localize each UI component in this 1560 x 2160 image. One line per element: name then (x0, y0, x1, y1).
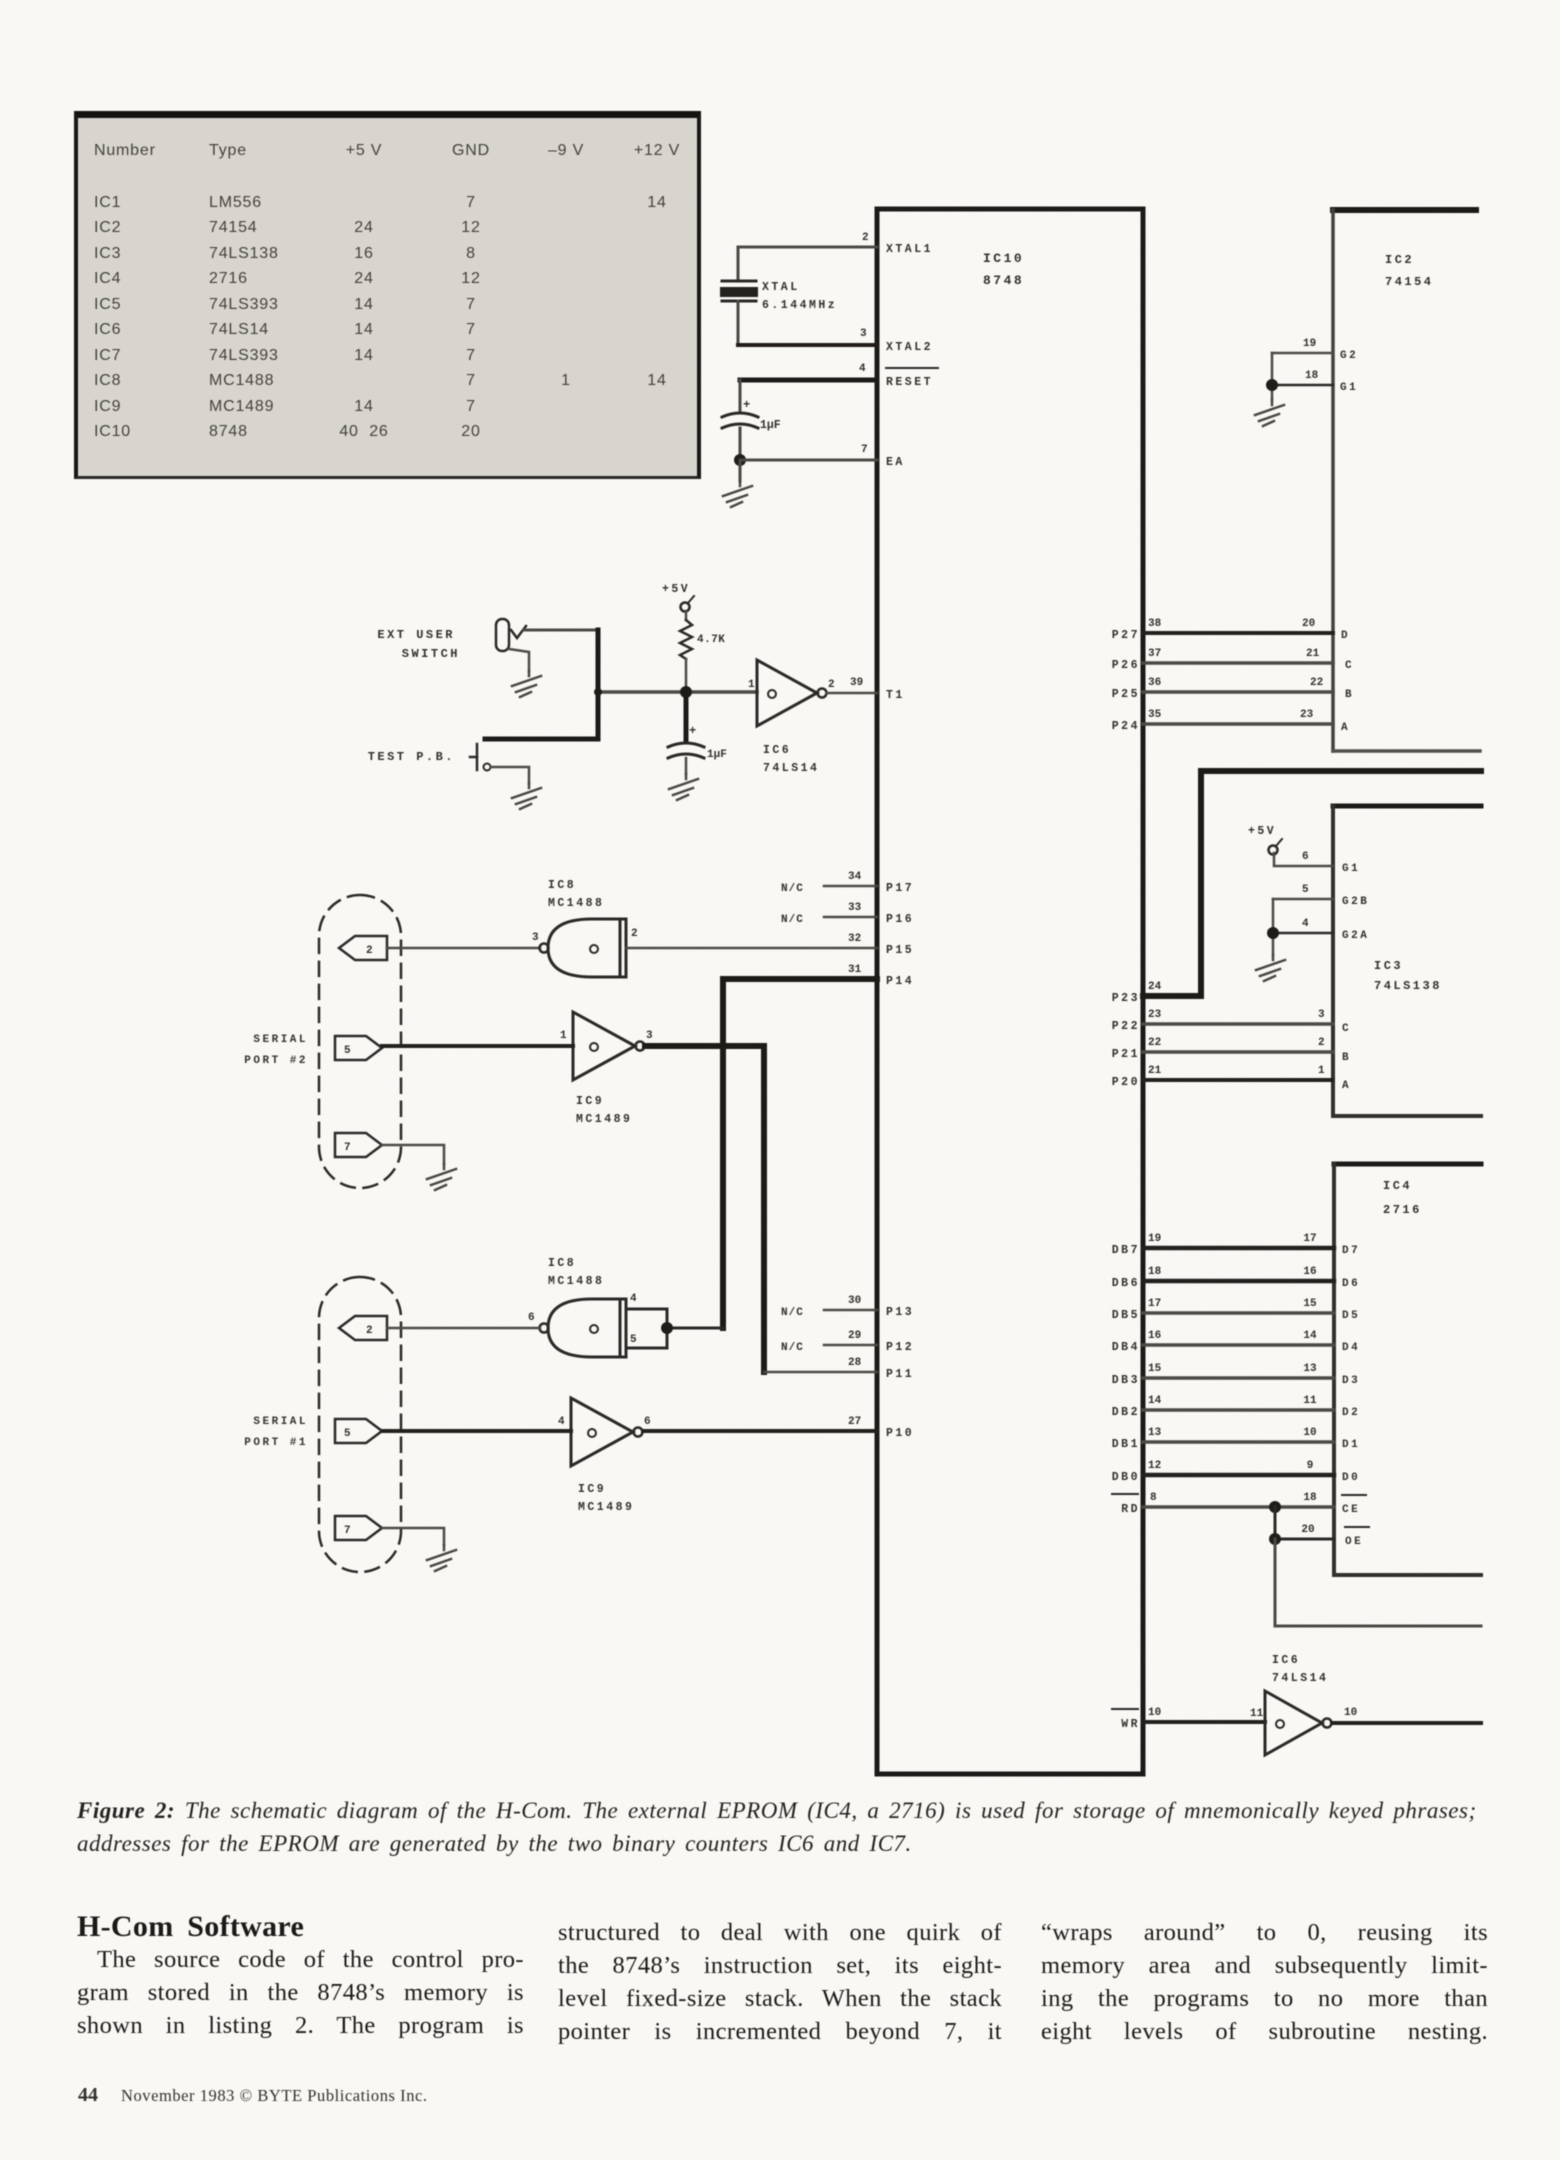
svg-text:+: + (743, 398, 750, 412)
svg-text:3: 3 (532, 932, 539, 944)
svg-text:7: 7 (861, 444, 868, 456)
wire SP2 pin5 to receiver (382, 1044, 573, 1048)
node switch junction T1 (594, 688, 602, 696)
svg-text:P11: P11 (886, 1368, 914, 1381)
svg-text:RD: RD (1121, 1503, 1140, 1516)
svg-text:28: 28 (848, 1357, 862, 1369)
wire node to inverter (598, 690, 757, 694)
svg-text:G2B: G2B (1342, 896, 1369, 908)
svg-text:MC1488: MC1488 (548, 1275, 604, 1288)
wire DB1 pin13 to 2716 D1 pin10 (1112, 1427, 1360, 1451)
svg-text:23: 23 (1300, 709, 1314, 721)
svg-text:3: 3 (860, 328, 867, 340)
wire XTAL2 pin3 (738, 328, 933, 354)
svg-text:19: 19 (1303, 338, 1316, 350)
svg-text:10: 10 (1344, 1707, 1357, 1719)
svg-text:G1: G1 (1342, 863, 1360, 875)
svg-text:SWITCH: SWITCH (402, 647, 460, 661)
svg-text:15: 15 (1303, 1298, 1317, 1310)
wire P24 pin35 to IC2 A pin23 (1112, 709, 1350, 734)
wire junction to cap (684, 692, 689, 742)
resistor 4.7K (680, 620, 725, 659)
crystal XTAL 6.144MHz (720, 281, 837, 312)
capacitor 1uF reset (722, 398, 781, 432)
ground IC3 enables (1256, 955, 1285, 981)
svg-text:XTAL: XTAL (762, 281, 800, 294)
wire XTAL1 pin2 (738, 232, 933, 256)
svg-text:6: 6 (644, 1416, 651, 1428)
svg-text:9: 9 (1307, 1460, 1314, 1472)
svg-text:P14: P14 (886, 975, 914, 988)
svg-text:XTAL1: XTAL1 (886, 243, 933, 256)
svg-text:22: 22 (1148, 1037, 1161, 1049)
svg-text:IC6: IC6 (763, 744, 791, 757)
wire N/C P17 pin34 (781, 871, 914, 895)
svg-text:20: 20 (1301, 1524, 1314, 1536)
svg-text:36: 36 (1148, 677, 1161, 689)
wire IC2 G2 pin19 (1272, 338, 1358, 362)
svg-text:24: 24 (1148, 981, 1162, 993)
wire EA pin7 (740, 444, 905, 469)
svg-text:3: 3 (1318, 1009, 1325, 1021)
connector pin 7 SP2 (335, 1133, 382, 1157)
wire IC2 G1 pin18 (1272, 370, 1358, 394)
body column 2 (558, 1916, 1002, 2048)
wire RD to OE (1275, 1507, 1369, 1548)
svg-text:20: 20 (1302, 618, 1315, 630)
svg-text:10: 10 (1303, 1427, 1316, 1439)
svg-text:14: 14 (1148, 1395, 1162, 1407)
svg-text:8748: 8748 (983, 273, 1024, 288)
svg-text:35: 35 (1148, 709, 1162, 721)
svg-text:RESET: RESET (886, 376, 933, 389)
svg-text:D0: D0 (1342, 1472, 1360, 1484)
wire MC1488 SP1 input loop (626, 1309, 723, 1348)
svg-text:+: + (689, 724, 696, 738)
svg-text:7: 7 (344, 1525, 351, 1537)
svg-text:5: 5 (1302, 884, 1309, 896)
svg-text:30: 30 (848, 1295, 861, 1307)
wire inverter to T1 pin39 (827, 677, 905, 702)
gate IC8 MC1488 driver SP2 (532, 879, 638, 977)
svg-text:8: 8 (1150, 1492, 1157, 1504)
svg-text:IC3: IC3 (1374, 959, 1403, 973)
svg-text:15: 15 (1148, 1363, 1162, 1375)
parts table (74, 111, 701, 479)
svg-text:74154: 74154 (1385, 275, 1434, 289)
svg-text:13: 13 (1148, 1427, 1162, 1439)
power +5V IC3 (1248, 825, 1282, 855)
svg-text:MC1489: MC1489 (576, 1113, 632, 1126)
wire RD pin8 to 2716 CE pin18 (1112, 1492, 1366, 1516)
pushbutton TEST P.B. (470, 744, 491, 771)
svg-text:WR: WR (1121, 1718, 1140, 1731)
svg-text:C: C (1345, 660, 1354, 672)
svg-text:P20: P20 (1112, 1076, 1140, 1089)
wire DB3 pin15 to 2716 D3 pin13 (1112, 1363, 1360, 1387)
svg-text:D6: D6 (1342, 1278, 1360, 1290)
svg-text:22: 22 (1310, 677, 1323, 689)
wire P23 pin24 bus (1112, 771, 1481, 1005)
connector pin 2 SP2 (339, 936, 387, 960)
svg-text:38: 38 (1148, 618, 1162, 630)
svg-text:P25: P25 (1112, 688, 1140, 701)
svg-text:N/C: N/C (781, 1307, 804, 1319)
wire P11 pin28 (764, 1357, 914, 1381)
wire P21 pin22 to IC3 B pin2 (1112, 1037, 1351, 1064)
wire IC3 enables tie (1272, 899, 1275, 955)
svg-text:P24: P24 (1112, 720, 1140, 733)
node EA junction (734, 454, 746, 466)
svg-text:4: 4 (859, 363, 866, 375)
wire driver SP1 to pin2 (387, 1327, 540, 1330)
ground SP1 (427, 1545, 456, 1571)
svg-text:2: 2 (862, 232, 869, 244)
node P14 to driver junction (661, 1322, 673, 1334)
svg-text:DB3: DB3 (1112, 1374, 1140, 1387)
svg-text:2: 2 (1318, 1037, 1325, 1049)
jack EXT USER SWITCH (496, 619, 526, 651)
svg-text:18: 18 (1305, 370, 1319, 382)
svg-text:TEST P.B.: TEST P.B. (368, 750, 455, 764)
svg-text:1: 1 (560, 1030, 567, 1042)
svg-text:MC1488: MC1488 (548, 897, 604, 910)
svg-text:P12: P12 (886, 1341, 914, 1354)
svg-text:+5V: +5V (662, 583, 690, 596)
wire DB6 pin18 to 2716 D6 pin16 (1112, 1266, 1360, 1290)
svg-text:74LS14: 74LS14 (1272, 1672, 1328, 1685)
wire WR pin10 to inverter (1112, 1707, 1265, 1731)
wire DB7 pin19 to 2716 D7 pin17 (1112, 1233, 1360, 1257)
svg-text:DB5: DB5 (1112, 1309, 1140, 1322)
gate IC8 MC1488 driver SP1 (528, 1257, 637, 1357)
wire SP1 pin5 to receiver (382, 1429, 571, 1433)
svg-text:A: A (1342, 1080, 1351, 1092)
wire IC3 G2B pin5 (1273, 884, 1369, 908)
svg-text:7: 7 (344, 1142, 351, 1154)
wire SP2 pin7 to ground (382, 1145, 444, 1164)
decoder IC3 74LS138 box (1333, 806, 1481, 1116)
svg-text:D4: D4 (1342, 1342, 1360, 1354)
svg-text:MC1489: MC1489 (578, 1501, 634, 1514)
node T1 RC junction (680, 686, 692, 698)
svg-text:IC4: IC4 (1383, 1179, 1412, 1193)
svg-text:DB2: DB2 (1112, 1406, 1140, 1419)
svg-text:19: 19 (1148, 1233, 1161, 1245)
svg-text:D3: D3 (1342, 1375, 1360, 1387)
svg-text:P22: P22 (1112, 1020, 1140, 1033)
connector SERIAL PORT #1 outline (244, 1277, 401, 1572)
body column 1 (77, 1910, 524, 2042)
wire driver SP2 to P15 pin32 (626, 933, 914, 957)
node IC3 enable junction (1267, 927, 1279, 939)
svg-text:IC8: IC8 (548, 1257, 576, 1270)
wire cap T1 to ground (685, 758, 688, 774)
svg-text:4.7K: 4.7K (697, 634, 725, 646)
svg-text:IC9: IC9 (578, 1483, 606, 1496)
svg-text:P27: P27 (1112, 629, 1140, 642)
wire resistor to junction (685, 659, 688, 692)
svg-text:P23: P23 (1112, 992, 1140, 1005)
wire OE bus down (1275, 1539, 1481, 1626)
svg-text:34: 34 (848, 871, 862, 883)
svg-text:27: 27 (848, 1416, 861, 1428)
svg-text:5: 5 (344, 1428, 351, 1440)
svg-text:4: 4 (630, 1293, 637, 1305)
svg-text:DB0: DB0 (1112, 1471, 1140, 1484)
svg-text:2: 2 (631, 928, 638, 940)
svg-text:CE: CE (1342, 1504, 1360, 1516)
svg-text:T1: T1 (886, 689, 905, 702)
svg-text:G2: G2 (1340, 350, 1358, 362)
svg-text:16: 16 (1148, 1330, 1161, 1342)
svg-text:4: 4 (558, 1416, 565, 1428)
wire switch bus horizontal (485, 737, 598, 742)
svg-text:P10: P10 (886, 1427, 914, 1440)
wire jack sleeve to ground (509, 649, 529, 671)
svg-text:2: 2 (366, 1325, 373, 1337)
wire IC3 G2A pin4 (1273, 918, 1369, 942)
svg-text:+5V: +5V (1248, 825, 1276, 838)
svg-text:D: D (1341, 630, 1350, 642)
svg-text:IC9: IC9 (576, 1095, 604, 1108)
wire reset cap vertical (739, 380, 742, 412)
svg-text:1µF: 1µF (707, 749, 727, 761)
svg-text:74LS14: 74LS14 (763, 762, 819, 775)
svg-text:1: 1 (748, 679, 755, 691)
wire P26 pin37 to IC2 C pin21 (1112, 648, 1354, 672)
svg-text:11: 11 (1250, 1708, 1264, 1720)
svg-text:32: 32 (848, 933, 861, 945)
connector pin 2 SP1 (339, 1316, 387, 1340)
svg-text:G1: G1 (1340, 382, 1358, 394)
svg-text:B: B (1345, 689, 1354, 701)
svg-text:IC6: IC6 (1272, 1654, 1300, 1667)
wire DB5 pin17 to 2716 D5 pin15 (1112, 1298, 1360, 1322)
svg-text:2: 2 (828, 679, 835, 691)
ground IC2 enables (1255, 400, 1284, 426)
wire RESET pin4 (740, 363, 938, 389)
svg-text:SERIAL: SERIAL (253, 1416, 308, 1428)
inverter IC6 74LS14 T1 (748, 660, 835, 775)
svg-text:D5: D5 (1342, 1310, 1360, 1322)
svg-text:PORT #2: PORT #2 (244, 1055, 308, 1067)
wire N/C P12 pin29 (781, 1330, 914, 1354)
wire DB4 pin16 to 2716 D4 pin14 (1112, 1330, 1360, 1354)
svg-text:3: 3 (646, 1030, 653, 1042)
svg-text:2716: 2716 (1383, 1203, 1422, 1217)
svg-text:14: 14 (1303, 1330, 1317, 1342)
capacitor 1uF T1 (668, 724, 727, 761)
figure caption (77, 1794, 1497, 1860)
svg-text:37: 37 (1148, 648, 1161, 660)
svg-text:XTAL2: XTAL2 (886, 341, 933, 354)
svg-text:B: B (1342, 1052, 1351, 1064)
svg-text:N/C: N/C (781, 1342, 804, 1354)
power +5V T1 pullup (662, 583, 694, 620)
svg-text:IC8: IC8 (548, 879, 576, 892)
wire pushbutton to ground (491, 767, 529, 783)
svg-text:C: C (1342, 1023, 1351, 1035)
connector pin 5 SP1 (335, 1419, 382, 1443)
node RD junction (1269, 1501, 1281, 1513)
svg-text:D2: D2 (1342, 1407, 1360, 1419)
wire jack to node (524, 629, 598, 632)
svg-text:39: 39 (850, 677, 863, 689)
connector pin 5 SP2 (335, 1036, 382, 1060)
svg-text:11: 11 (1303, 1395, 1317, 1407)
wire P27 pin38 to IC2 D pin20 (1112, 618, 1350, 642)
svg-text:G2A: G2A (1342, 930, 1369, 942)
svg-text:P16: P16 (886, 913, 914, 926)
svg-text:6: 6 (528, 1312, 535, 1324)
node IC2 enable junction (1266, 379, 1278, 391)
svg-text:74LS138: 74LS138 (1374, 979, 1442, 993)
svg-text:23: 23 (1148, 1009, 1162, 1021)
svg-text:33: 33 (848, 902, 862, 914)
wire crystal left vertical (737, 247, 740, 281)
svg-text:17: 17 (1148, 1298, 1161, 1310)
node OE junction (1269, 1533, 1281, 1545)
svg-text:PORT #1: PORT #1 (244, 1437, 308, 1449)
svg-text:OE: OE (1345, 1536, 1363, 1548)
body column 3 (1041, 1916, 1488, 2048)
svg-text:N/C: N/C (781, 914, 804, 926)
wire receiver SP1 to P10 pin27 (643, 1416, 914, 1440)
svg-text:D7: D7 (1342, 1245, 1360, 1257)
ground T1 cap (669, 774, 698, 800)
svg-text:13: 13 (1303, 1363, 1317, 1375)
svg-text:29: 29 (848, 1330, 861, 1342)
wire N/C P13 pin30 (781, 1295, 914, 1319)
wire P14 pin31 (723, 964, 914, 1328)
connector pin 7 SP1 (335, 1516, 382, 1540)
label EXT USER SWITCH (377, 628, 460, 661)
svg-text:P15: P15 (886, 944, 914, 957)
svg-text:21: 21 (1148, 1065, 1162, 1077)
wire P20 pin21 to IC3 A pin1 (1112, 1065, 1351, 1092)
svg-text:SERIAL: SERIAL (253, 1034, 308, 1046)
svg-text:P17: P17 (886, 882, 914, 895)
svg-text:1: 1 (1318, 1065, 1325, 1077)
wire +5V to IC3 G1 pin6 (1274, 851, 1360, 875)
receiver IC9 MC1489 SP2 (560, 1012, 653, 1126)
svg-text:2: 2 (366, 945, 373, 957)
svg-text:31: 31 (848, 964, 862, 976)
label TEST P.B. (368, 750, 455, 764)
svg-text:18: 18 (1303, 1492, 1317, 1504)
receiver IC9 MC1489 SP1 (558, 1398, 651, 1514)
wire crystal to XTAL2 (737, 301, 740, 345)
svg-text:EXT USER: EXT USER (377, 628, 455, 642)
wire DB0 pin12 to 2716 D0 pin9 (1112, 1460, 1360, 1484)
svg-text:5: 5 (344, 1045, 351, 1057)
wire P22 pin23 to IC3 C pin3 (1112, 1009, 1351, 1035)
svg-text:DB1: DB1 (1112, 1438, 1140, 1451)
svg-text:N/C: N/C (781, 883, 804, 895)
svg-text:6.144MHz: 6.144MHz (762, 299, 837, 312)
inverter IC6 74LS14 WR (1250, 1654, 1357, 1755)
ground SP2 (427, 1164, 456, 1190)
wire DB2 pin14 to 2716 D2 pin11 (1112, 1395, 1360, 1419)
svg-text:17: 17 (1303, 1233, 1316, 1245)
svg-text:P13: P13 (886, 1306, 914, 1319)
ground TEST P.B. (512, 783, 541, 809)
svg-text:IC10: IC10 (983, 251, 1024, 266)
wire cap to EA junction (739, 428, 742, 460)
svg-text:10: 10 (1148, 1707, 1161, 1719)
wire WR inverter output bus (1332, 1721, 1481, 1725)
svg-text:12: 12 (1148, 1460, 1161, 1472)
wire IC2 enables tie (1271, 353, 1274, 400)
decoder IC2 74154 box (1333, 210, 1480, 751)
svg-text:A: A (1341, 722, 1350, 734)
ground jack (512, 671, 541, 697)
eprom IC4 2716 box (1334, 1164, 1481, 1575)
svg-text:21: 21 (1306, 648, 1320, 660)
svg-text:4: 4 (1302, 918, 1309, 930)
svg-text:16: 16 (1303, 1266, 1316, 1278)
svg-text:IC2: IC2 (1385, 253, 1414, 267)
svg-text:5: 5 (630, 1334, 637, 1346)
svg-text:1µF: 1µF (760, 419, 781, 432)
op IC10 8748 microcomputer box (877, 209, 1143, 1774)
wire receiver SP2 to P11 pin28 (645, 1046, 764, 1372)
svg-text:DB4: DB4 (1112, 1341, 1140, 1354)
wire SP2 pin2 to driver (387, 947, 540, 950)
wire SP1 pin7 to ground (382, 1528, 444, 1545)
svg-text:DB6: DB6 (1112, 1277, 1140, 1290)
svg-text:P21: P21 (1112, 1048, 1140, 1061)
svg-text:EA: EA (886, 456, 905, 469)
page footer (78, 2084, 428, 2107)
wire switch bus vertical (596, 630, 601, 739)
connector SERIAL PORT #2 outline (244, 895, 401, 1188)
svg-text:6: 6 (1302, 851, 1309, 863)
svg-text:18: 18 (1148, 1266, 1162, 1278)
svg-text:D1: D1 (1342, 1439, 1360, 1451)
ground reset cap (723, 460, 752, 507)
wire N/C P16 pin33 (781, 902, 914, 926)
wire P25 pin36 to IC2 B pin22 (1112, 677, 1354, 701)
svg-text:DB7: DB7 (1112, 1244, 1140, 1257)
svg-text:P26: P26 (1112, 659, 1140, 672)
